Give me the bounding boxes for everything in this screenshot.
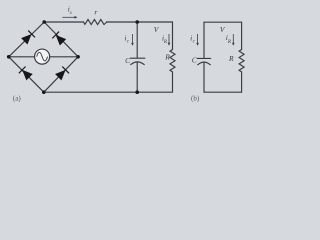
wire diamond arm left-top	[9, 22, 45, 57]
wire bottom (a)	[44, 91, 173, 93]
resistor r	[84, 20, 107, 25]
svg-text:(b): (b)	[191, 95, 200, 103]
node left vertex	[7, 55, 11, 59]
svg-text:V: V	[154, 25, 160, 34]
wire diamond arm top-right	[44, 22, 78, 57]
wire top output	[44, 21, 83, 23]
wire (b) bottom	[204, 91, 242, 93]
wire source left	[9, 56, 35, 58]
svg-text:s: s	[70, 11, 72, 16]
svg-text:c: c	[193, 40, 196, 45]
arrow i_C (a)	[131, 34, 134, 46]
label current i_C (a)	[124, 33, 129, 44]
wire diamond arm left-bottom	[9, 57, 44, 92]
label current i_s	[68, 4, 72, 15]
node right vertex	[76, 55, 80, 59]
node C junction top (a)	[135, 20, 139, 24]
svg-text:C: C	[192, 55, 197, 64]
wire source right	[50, 56, 79, 58]
svg-text:R: R	[164, 53, 170, 62]
svg-text:c: c	[127, 40, 130, 45]
wire C branch upper (a)	[136, 22, 138, 58]
wire R branch upper (a)	[172, 22, 174, 50]
arrow i_s	[62, 16, 77, 19]
node bottom vertex	[42, 90, 46, 94]
wire R branch lower (a)	[172, 72, 174, 92]
svg-text:R: R	[163, 40, 167, 45]
label current i_R (b)	[226, 33, 231, 45]
label current i_C (b)	[190, 33, 196, 44]
ac source vs	[35, 49, 50, 64]
diode D2	[52, 32, 66, 46]
wire (b) left lower	[203, 62, 205, 92]
svg-text:C: C	[125, 56, 130, 65]
svg-text:R: R	[227, 40, 231, 45]
capacitor C (b)	[197, 58, 210, 64]
label current i_R (a)	[162, 33, 167, 45]
node C junction bottom (a)	[135, 90, 139, 94]
capacitor C (a)	[130, 58, 144, 64]
resistor R (a)	[170, 50, 175, 72]
wire (b) right lower	[241, 72, 243, 92]
wire C branch lower (a)	[136, 62, 138, 92]
diode D1	[21, 31, 35, 45]
svg-text:R: R	[228, 54, 234, 63]
svg-text:r: r	[94, 8, 97, 17]
diode D4	[55, 66, 69, 80]
wire (b) right upper	[241, 22, 243, 49]
arrow i_C (b)	[196, 34, 199, 46]
wire (b) left upper	[203, 22, 205, 58]
arrow i_R (a)	[168, 34, 171, 46]
resistor R (b)	[239, 50, 244, 72]
arrow i_R (b)	[232, 34, 235, 46]
diode D3	[19, 66, 33, 80]
svg-text:(a): (a)	[13, 94, 21, 102]
node top vertex	[42, 20, 46, 24]
wire top to C branch	[107, 21, 173, 23]
wire (b) top	[204, 21, 242, 23]
wire diamond arm bottom-right	[44, 57, 78, 92]
